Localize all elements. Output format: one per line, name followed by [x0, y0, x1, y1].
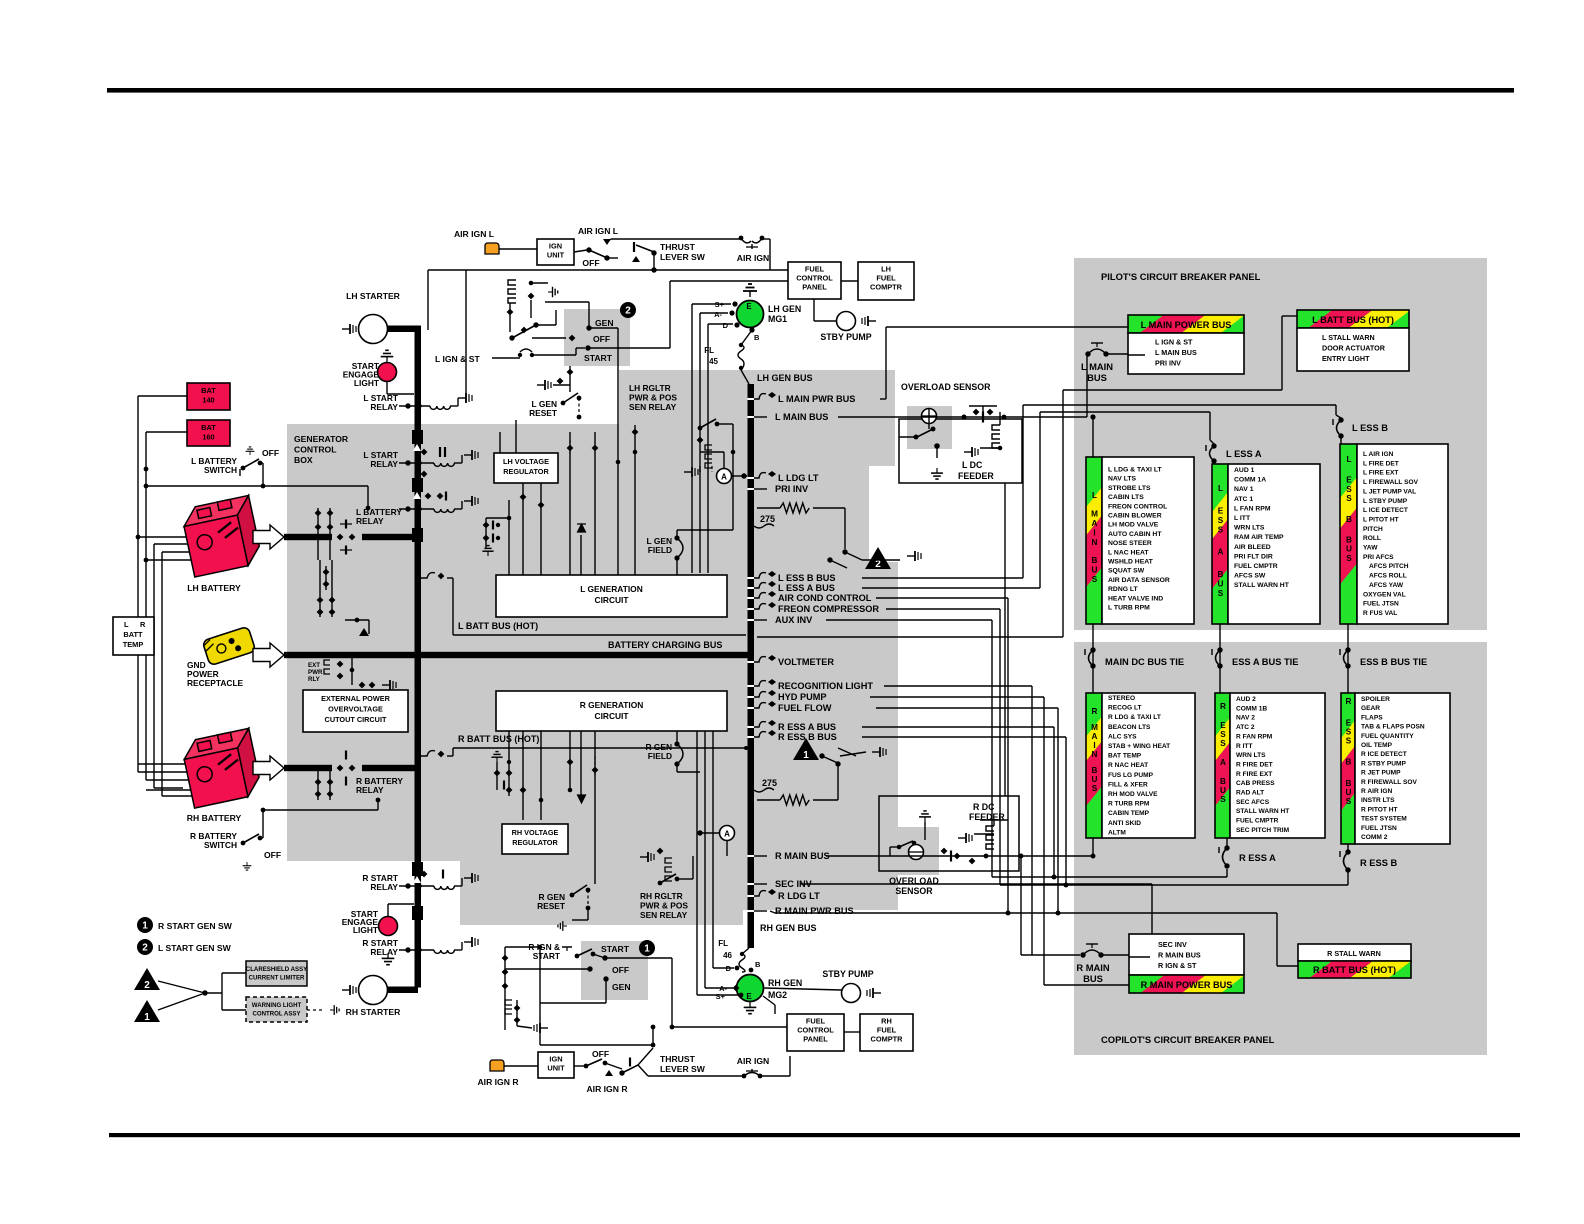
svg-text:R MAIN BUS: R MAIN BUS — [1158, 951, 1201, 960]
relay contact cluster below L battery row — [315, 510, 322, 517]
svg-text:FIELD: FIELD — [648, 751, 672, 761]
svg-text:STEREO: STEREO — [1108, 695, 1135, 702]
contacts above ext power box — [317, 597, 324, 604]
svg-text:M: M — [1091, 509, 1098, 518]
svg-text:CIRCUIT: CIRCUIT — [595, 595, 630, 605]
fuse 275 upper with squiggle — [754, 524, 774, 528]
aux contacts upper gen circuit — [567, 445, 574, 452]
svg-text:PRI AFCS: PRI AFCS — [1363, 554, 1394, 561]
svg-text:SEC PITCH TRIM: SEC PITCH TRIM — [1236, 827, 1290, 834]
svg-text:S: S — [1346, 727, 1352, 736]
svg-text:L START GEN SW: L START GEN SW — [158, 943, 232, 953]
wire: R MAIN col bottom to R MAIN BUS wire — [1092, 838, 1094, 856]
arrow RH battery to bus — [253, 756, 284, 780]
svg-text:RH VOLTAGE: RH VOLTAGE — [512, 828, 559, 837]
svg-text:R MAIN POWER BUS: R MAIN POWER BUS — [1141, 980, 1233, 990]
svg-text:AUD 1: AUD 1 — [1234, 467, 1255, 474]
svg-text:REGULATOR: REGULATOR — [503, 467, 549, 476]
svg-text:WRN LTS: WRN LTS — [1234, 525, 1265, 532]
svg-text:SEC INV: SEC INV — [1158, 940, 1187, 949]
svg-text:CURRENT LIMITER: CURRENT LIMITER — [249, 974, 305, 981]
svg-text:R LDG LT: R LDG LT — [778, 891, 820, 901]
svg-text:E: E — [1346, 476, 1352, 485]
overload sensor element lower — [909, 845, 924, 860]
svg-text:FUEL CMPTR: FUEL CMPTR — [1234, 563, 1278, 570]
diode on wire x581 — [577, 524, 586, 532]
svg-text:SWITCH: SWITCH — [204, 465, 237, 475]
svg-text:FUEL: FUEL — [876, 274, 896, 283]
svg-text:BAT TEMP: BAT TEMP — [1108, 753, 1142, 760]
svg-text:AIR DATA SENSOR: AIR DATA SENSOR — [1108, 577, 1170, 584]
svg-text:FUEL FLOW: FUEL FLOW — [778, 703, 832, 713]
svg-text:L FIREWALL SOV: L FIREWALL SOV — [1363, 479, 1419, 486]
svg-text:R JET PUMP: R JET PUMP — [1361, 770, 1401, 777]
LH fuel comptr box — [858, 262, 914, 300]
svg-text:FREON COMPRESSOR: FREON COMPRESSOR — [778, 604, 879, 614]
svg-text:PILOT'S CIRCUIT BREAKER PANEL: PILOT'S CIRCUIT BREAKER PANEL — [1101, 271, 1261, 282]
svg-text:CONTROL: CONTROL — [294, 444, 337, 454]
svg-text:R PITOT HT: R PITOT HT — [1361, 806, 1398, 813]
battery charging bus thick bar — [284, 652, 748, 658]
diode on wire x581 lower — [577, 795, 586, 803]
svg-text:LH: LH — [881, 265, 891, 274]
svg-text:PANEL: PANEL — [803, 1035, 828, 1044]
svg-text:AIR IGN R: AIR IGN R — [477, 1077, 519, 1087]
svg-text:L MAIN BUS: L MAIN BUS — [1155, 348, 1197, 357]
resistor lower — [757, 799, 780, 801]
wire: L DC feeder to lower feeder — [1004, 483, 1006, 796]
svg-text:SWITCH: SWITCH — [204, 840, 237, 850]
svg-text:PRI INV: PRI INV — [775, 484, 809, 494]
svg-text:UNIT: UNIT — [547, 251, 565, 260]
svg-text:L ESS B BUS: L ESS B BUS — [778, 573, 836, 583]
gray patch: R start gen switch (START/OFF/GEN) — [581, 941, 648, 1000]
wire OFF position to L IGN & ST — [532, 337, 566, 339]
AIR IGN L indicator light — [485, 243, 499, 254]
svg-text:BAT: BAT — [201, 386, 216, 395]
svg-text:RECOGNITION LIGHT: RECOGNITION LIGHT — [778, 681, 873, 691]
svg-text:R FUS VAL: R FUS VAL — [1363, 610, 1397, 617]
svg-text:CIRCUIT: CIRCUIT — [595, 711, 630, 721]
svg-text:S: S — [1346, 554, 1352, 563]
svg-text:ESS A BUS TIE: ESS A BUS TIE — [1232, 657, 1298, 667]
svg-text:AUD 2: AUD 2 — [1236, 696, 1256, 703]
svg-text:RAD ALT: RAD ALT — [1236, 790, 1264, 797]
svg-text:S: S — [1220, 795, 1226, 804]
svg-text:OXYGEN VAL: OXYGEN VAL — [1363, 591, 1406, 598]
switch right of triangle 1 — [819, 753, 824, 758]
svg-text:L NAC HEAT: L NAC HEAT — [1108, 549, 1149, 556]
net tap: L MAIN BUS — [754, 416, 767, 418]
svg-text:COMPTR: COMPTR — [870, 1035, 903, 1044]
svg-text:B: B — [1346, 536, 1352, 545]
svg-text:SEC AFCS: SEC AFCS — [1236, 799, 1270, 806]
net tap: VOLTMETER — [754, 657, 766, 662]
svg-text:RELAY: RELAY — [370, 459, 398, 469]
svg-text:MG1: MG1 — [768, 314, 787, 324]
svg-text:OVERLOAD SENSOR: OVERLOAD SENSOR — [901, 382, 991, 392]
svg-text:R LDG & TAXI LT: R LDG & TAXI LT — [1108, 714, 1161, 721]
stby pump lower circle — [842, 984, 861, 1003]
L BATTERY RELAY contacts — [337, 534, 344, 541]
legend circle 2 L START GEN SW — [137, 939, 153, 955]
svg-text:SPOILER: SPOILER — [1361, 696, 1390, 703]
thrust lever switch (bottom) — [619, 1070, 624, 1075]
wire: L ESS B BUS to panel — [862, 577, 1023, 579]
relay sym above L GEN RESET — [537, 380, 551, 390]
svg-text:R: R — [1346, 697, 1352, 706]
svg-text:S: S — [1220, 730, 1226, 739]
svg-text:R FIRE DET: R FIRE DET — [1236, 761, 1273, 768]
wire: L BATT BUS to panel — [757, 636, 1063, 638]
svg-text:L ITT: L ITT — [1234, 515, 1251, 522]
RH VOLTAGE REGULATOR box — [502, 824, 568, 854]
svg-text:L PITOT HT: L PITOT HT — [1363, 516, 1399, 523]
svg-text:S: S — [1092, 784, 1098, 793]
svg-text:COMM 2: COMM 2 — [1361, 834, 1388, 841]
svg-text:OFF: OFF — [612, 965, 629, 975]
svg-text:COMM 1B: COMM 1B — [1236, 705, 1267, 712]
svg-text:R FIRE EXT: R FIRE EXT — [1236, 771, 1272, 778]
svg-text:BUS: BUS — [1083, 973, 1103, 984]
svg-text:NAV 1: NAV 1 — [1234, 486, 1254, 493]
generator RH GEN MG2 — [737, 975, 764, 1002]
OFF switch after IGN UNIT — [574, 250, 587, 252]
svg-text:AIR IGN: AIR IGN — [737, 1056, 769, 1066]
wire R battery switch up to relay — [263, 809, 378, 811]
wire fuel control panel to RH gen area — [763, 996, 775, 1005]
svg-text:LH GEN BUS: LH GEN BUS — [757, 373, 813, 383]
svg-text:L BATT BUS (HOT): L BATT BUS (HOT) — [1312, 315, 1394, 325]
svg-text:L ESS A: L ESS A — [1226, 449, 1262, 459]
resistor upper (bus bleed) — [757, 507, 780, 509]
svg-text:RH: RH — [881, 1017, 892, 1026]
svg-text:R BATT BUS (HOT): R BATT BUS (HOT) — [458, 734, 539, 744]
LH/RH GEN BUS main vertical bus bar — [748, 384, 755, 948]
ground above LH GEN — [743, 284, 757, 297]
svg-text:CONTROL: CONTROL — [797, 1026, 834, 1035]
svg-text:ALC SYS: ALC SYS — [1108, 733, 1137, 740]
svg-text:L: L — [124, 620, 129, 629]
arrow receptacle to battery charging bus — [253, 643, 284, 667]
switch to triangle 2 — [842, 549, 847, 554]
svg-text:I: I — [1093, 741, 1095, 750]
svg-text:RELAY: RELAY — [370, 882, 398, 892]
svg-text:STROBE LTS: STROBE LTS — [1108, 485, 1151, 492]
svg-text:RESET: RESET — [537, 901, 566, 911]
svg-text:A: A — [1092, 732, 1098, 741]
svg-text:L MAIN: L MAIN — [1081, 361, 1113, 372]
svg-text:SEN RELAY: SEN RELAY — [640, 910, 688, 920]
junction to start wire — [540, 1044, 653, 1046]
svg-text:SEN RELAY: SEN RELAY — [629, 402, 677, 412]
wire: R ESS A BUS run — [862, 726, 1054, 728]
ground below RH GEN — [744, 1002, 757, 1014]
svg-text:AFCS PITCH: AFCS PITCH — [1369, 563, 1409, 570]
svg-text:E: E — [746, 302, 752, 311]
svg-text:L IGN & ST: L IGN & ST — [1155, 338, 1193, 347]
legend connecting wires — [158, 981, 205, 993]
wire: R ESS B switch run — [1000, 884, 1348, 886]
svg-text:PWR & POS: PWR & POS — [629, 393, 677, 403]
net tap: SEC INV — [754, 883, 767, 885]
RH RGLTR relay contacts — [640, 852, 654, 862]
IGN UNIT box (bottom) — [538, 1052, 574, 1078]
svg-text:WRN LTS: WRN LTS — [1236, 752, 1266, 759]
net tap: R MAIN BUS — [754, 855, 767, 857]
svg-text:AUX INV: AUX INV — [775, 615, 813, 625]
thick feed RH starter to main DC bar — [387, 987, 418, 994]
L start-gen selector GEN/OFF/START — [586, 325, 591, 330]
svg-text:BAT: BAT — [201, 423, 216, 432]
svg-text:FILL & XFER: FILL & XFER — [1108, 781, 1148, 788]
wire: R ESS B BUS run — [862, 736, 1066, 738]
svg-text:B: B — [1092, 766, 1098, 775]
svg-text:ATC 2: ATC 2 — [1236, 724, 1255, 731]
overload sensor circuit box (upper) — [899, 419, 1022, 483]
svg-text:BATT: BATT — [123, 630, 143, 639]
svg-text:LH VOLTAGE: LH VOLTAGE — [503, 457, 549, 466]
svg-text:R: R — [1220, 702, 1226, 711]
svg-text:L LDG & TAXI LT: L LDG & TAXI LT — [1108, 467, 1162, 474]
svg-text:140: 140 — [202, 395, 214, 404]
svg-text:R START GEN SW: R START GEN SW — [158, 921, 233, 931]
svg-text:L FAN RPM: L FAN RPM — [1234, 505, 1271, 512]
svg-text:A: A — [1220, 758, 1226, 767]
wire: R MAIN BUS run — [826, 855, 1093, 857]
svg-text:L DC: L DC — [962, 460, 983, 470]
wire + switch: ESS A BUS TIE — [1219, 624, 1221, 693]
svg-text:2: 2 — [142, 943, 148, 954]
svg-text:U: U — [1346, 788, 1352, 797]
dashed lead to ground from warning box — [307, 1009, 322, 1011]
ammeter A upper — [717, 469, 732, 484]
svg-text:L AIR IGN: L AIR IGN — [1363, 451, 1394, 458]
svg-text:L JET PUMP VAL: L JET PUMP VAL — [1363, 488, 1416, 495]
svg-text:2: 2 — [144, 980, 150, 991]
wire: hyd pump to R MAIN POWER BUS header — [1044, 984, 1129, 986]
net tap: R LDG LT — [754, 891, 766, 896]
svg-text:AIR BLEED: AIR BLEED — [1234, 544, 1271, 551]
svg-text:L LDG LT: L LDG LT — [778, 473, 819, 483]
svg-text:OFF: OFF — [262, 448, 279, 458]
gray region: generator control box / central area — [287, 370, 898, 925]
svg-text:A: A — [1218, 548, 1224, 557]
svg-text:L BATT BUS (HOT): L BATT BUS (HOT) — [458, 621, 538, 631]
svg-text:R: R — [140, 620, 146, 629]
svg-text:STALL WARN HT: STALL WARN HT — [1234, 582, 1290, 589]
IGN UNIT box (top) — [537, 239, 574, 265]
svg-text:R IGN & ST: R IGN & ST — [1158, 961, 1197, 970]
svg-text:AIR IGN L: AIR IGN L — [578, 226, 618, 236]
svg-text:AIR IGN L: AIR IGN L — [454, 229, 494, 239]
svg-text:L: L — [1346, 455, 1351, 464]
svg-text:L STBY PUMP: L STBY PUMP — [1363, 498, 1408, 505]
svg-text:2: 2 — [625, 306, 631, 317]
svg-text:PITCH: PITCH — [1363, 526, 1383, 533]
net tap: L ESS A BUS — [754, 583, 766, 588]
wires from R generation circuit bottom — [508, 731, 510, 757]
svg-text:CABIN BLOWER: CABIN BLOWER — [1108, 513, 1162, 520]
CLARESHIELD ASSY CURRENT LIMITER box — [246, 961, 307, 986]
svg-text:COPILOT'S CIRCUIT BREAKER PANE: COPILOT'S CIRCUIT BREAKER PANEL — [1101, 1034, 1275, 1045]
svg-text:U: U — [1346, 545, 1352, 554]
svg-text:S: S — [1346, 797, 1352, 806]
wire: AIR COND CONTROL run — [876, 597, 1008, 599]
switch: R ESS B — [1345, 849, 1350, 854]
svg-text:RH MOD VALVE: RH MOD VALVE — [1108, 791, 1158, 798]
svg-text:M: M — [1091, 723, 1098, 732]
svg-text:L MAIN POWER BUS: L MAIN POWER BUS — [1141, 320, 1232, 330]
svg-text:R MAIN: R MAIN — [1076, 962, 1110, 973]
svg-text:EXT: EXT — [308, 662, 320, 669]
R STALL WARN box — [1298, 944, 1411, 961]
svg-text:AUTO CABIN HT: AUTO CABIN HT — [1108, 531, 1162, 538]
fuel control panel box (bottom) — [787, 1014, 844, 1051]
wire: HYD PUMP run — [870, 696, 1044, 698]
svg-text:LH RGLTR: LH RGLTR — [629, 383, 671, 393]
switch: L ESS B — [1338, 417, 1343, 422]
svg-text:CLARESHIELD ASSY: CLARESHIELD ASSY — [246, 966, 307, 973]
switch: R MAIN BUS (copilot) — [1080, 952, 1085, 957]
gray patch: overload sensor lower — [892, 827, 939, 875]
svg-text:B: B — [1346, 758, 1352, 767]
stby pump upper circle — [837, 312, 856, 331]
svg-text:CABIN LTS: CABIN LTS — [1108, 494, 1144, 501]
arrow LH battery to bus — [253, 525, 284, 549]
wire: FUEL FLOW run — [876, 707, 1058, 709]
svg-text:STBY PUMP: STBY PUMP — [822, 969, 873, 979]
svg-text:S: S — [1218, 589, 1224, 598]
svg-text:EXTERNAL POWER: EXTERNAL POWER — [321, 694, 391, 703]
wire from START position to fuel control panel — [588, 347, 670, 349]
net tap: R ESS B BUS — [754, 732, 766, 737]
wire: L ESS A BUS to panel — [862, 587, 1040, 589]
L batt bus hot wire — [421, 573, 435, 578]
overload sensor circuit box (lower) — [879, 796, 1019, 871]
LH RGLTR coil detail — [711, 466, 713, 472]
battery box BAT 140 — [187, 383, 230, 410]
wire ign-unit feed down to relay cluster — [465, 270, 467, 402]
svg-text:COMM 1A: COMM 1A — [1234, 477, 1266, 484]
svg-text:RH RGLTR: RH RGLTR — [640, 891, 683, 901]
svg-text:L GENERATION: L GENERATION — [580, 584, 643, 594]
wire AIR IGN R to IGN UNIT — [504, 1065, 538, 1067]
svg-text:UNIT: UNIT — [547, 1064, 565, 1073]
wire: SEC INV run to copilot box — [800, 883, 1152, 885]
svg-text:ESS B BUS TIE: ESS B BUS TIE — [1360, 657, 1427, 667]
net tap: RECOGNITION LIGHT — [754, 681, 766, 686]
thick bus segments RH battery row — [284, 765, 332, 771]
svg-text:CABIN TEMP: CABIN TEMP — [1108, 810, 1150, 817]
svg-text:BEACON LTS: BEACON LTS — [1108, 724, 1151, 731]
svg-text:FL: FL — [718, 939, 728, 948]
svg-text:E: E — [746, 992, 752, 1001]
svg-text:S: S — [1218, 516, 1224, 525]
svg-text:LIGHT: LIGHT — [353, 925, 379, 935]
triangle flag 2 legend — [134, 968, 160, 990]
svg-text:L ICE DETECT: L ICE DETECT — [1363, 507, 1408, 514]
svg-text:NOSE STEER: NOSE STEER — [1108, 540, 1152, 547]
svg-text:B: B — [1092, 556, 1098, 565]
svg-text:E: E — [1220, 721, 1226, 730]
thrust lever switch (top) — [607, 257, 618, 259]
LH RGLTR relay contacts — [698, 426, 703, 431]
svg-text:R ESS B: R ESS B — [1360, 858, 1397, 868]
svg-text:START: START — [584, 353, 613, 363]
svg-text:RLY: RLY — [308, 676, 321, 683]
junction bar on left DC bus — [412, 430, 423, 444]
svg-text:WARNING LIGHT: WARNING LIGHT — [252, 1002, 302, 1009]
generator LH GEN MG1 — [737, 301, 764, 328]
svg-text:FL: FL — [704, 346, 714, 355]
svg-text:U: U — [1220, 786, 1226, 795]
svg-text:IGN: IGN — [549, 242, 562, 251]
svg-text:BUS: BUS — [1087, 372, 1107, 383]
svg-text:PWR & POS: PWR & POS — [640, 901, 688, 911]
AIR IGN R indicator light — [490, 1060, 504, 1071]
svg-text:LH STARTER: LH STARTER — [346, 291, 401, 301]
triangle 1 warning flag — [793, 738, 819, 760]
svg-text:RH STARTER: RH STARTER — [346, 1007, 402, 1017]
L start relay contact row (on gray) — [405, 506, 410, 511]
svg-text:STALL WARN HT: STALL WARN HT — [1236, 808, 1289, 815]
svg-text:275: 275 — [760, 514, 775, 524]
svg-text:FUEL: FUEL — [805, 265, 825, 274]
triangle flag 1 legend — [134, 1000, 160, 1022]
svg-text:ENTRY LIGHT: ENTRY LIGHT — [1322, 354, 1370, 363]
svg-text:R AIR IGN: R AIR IGN — [1361, 788, 1392, 795]
svg-text:FUEL CMPTR: FUEL CMPTR — [1236, 818, 1279, 825]
wire: RECOGNITION LIGHT run — [884, 685, 1032, 687]
R BATTERY RELAY contacts — [337, 765, 344, 772]
net tap: PRI INV — [754, 488, 767, 490]
switch arm to GEN position — [509, 335, 514, 340]
svg-text:CONTROL: CONTROL — [796, 274, 833, 283]
svg-text:RELAY: RELAY — [370, 402, 398, 412]
net tap: HYD PUMP — [754, 692, 766, 697]
wire down from AIR IGN junction — [427, 270, 429, 330]
svg-text:LEVER SW: LEVER SW — [660, 1064, 706, 1074]
svg-text:AIR IGN R: AIR IGN R — [586, 1084, 628, 1094]
svg-text:S: S — [1346, 485, 1352, 494]
svg-text:ALTM: ALTM — [1108, 829, 1126, 836]
svg-text:1: 1 — [803, 750, 809, 761]
relay cluster above L IGN & ST — [508, 280, 516, 303]
svg-text:R TURB RPM: R TURB RPM — [1108, 801, 1150, 808]
svg-text:L ESS B: L ESS B — [1352, 423, 1388, 433]
RH STARTER motor — [359, 976, 388, 1005]
svg-text:WSHLD HEAT: WSHLD HEAT — [1108, 559, 1154, 566]
svg-text:I: I — [1093, 528, 1095, 537]
svg-text:PRI FLT DIR: PRI FLT DIR — [1234, 553, 1273, 560]
svg-text:A: A — [724, 830, 730, 839]
svg-text:U: U — [1218, 579, 1224, 588]
svg-text:THRUST: THRUST — [660, 242, 696, 252]
svg-text:STAB + WING HEAT: STAB + WING HEAT — [1108, 743, 1170, 750]
svg-text:45: 45 — [709, 357, 718, 366]
wires from R selector — [605, 957, 672, 959]
external power overvoltage cutout circuit box — [303, 690, 408, 732]
svg-text:LIGHT: LIGHT — [354, 378, 380, 388]
svg-text:ANTI SKID: ANTI SKID — [1108, 820, 1141, 827]
ammeter A lower — [720, 826, 735, 841]
svg-text:275: 275 — [762, 778, 777, 788]
svg-text:R ICE DETECT: R ICE DETECT — [1361, 751, 1407, 758]
svg-text:S+: S+ — [716, 992, 726, 1001]
battery LH BATTERY (3D red box) — [181, 495, 263, 577]
svg-text:FUEL JTSN: FUEL JTSN — [1363, 601, 1399, 608]
